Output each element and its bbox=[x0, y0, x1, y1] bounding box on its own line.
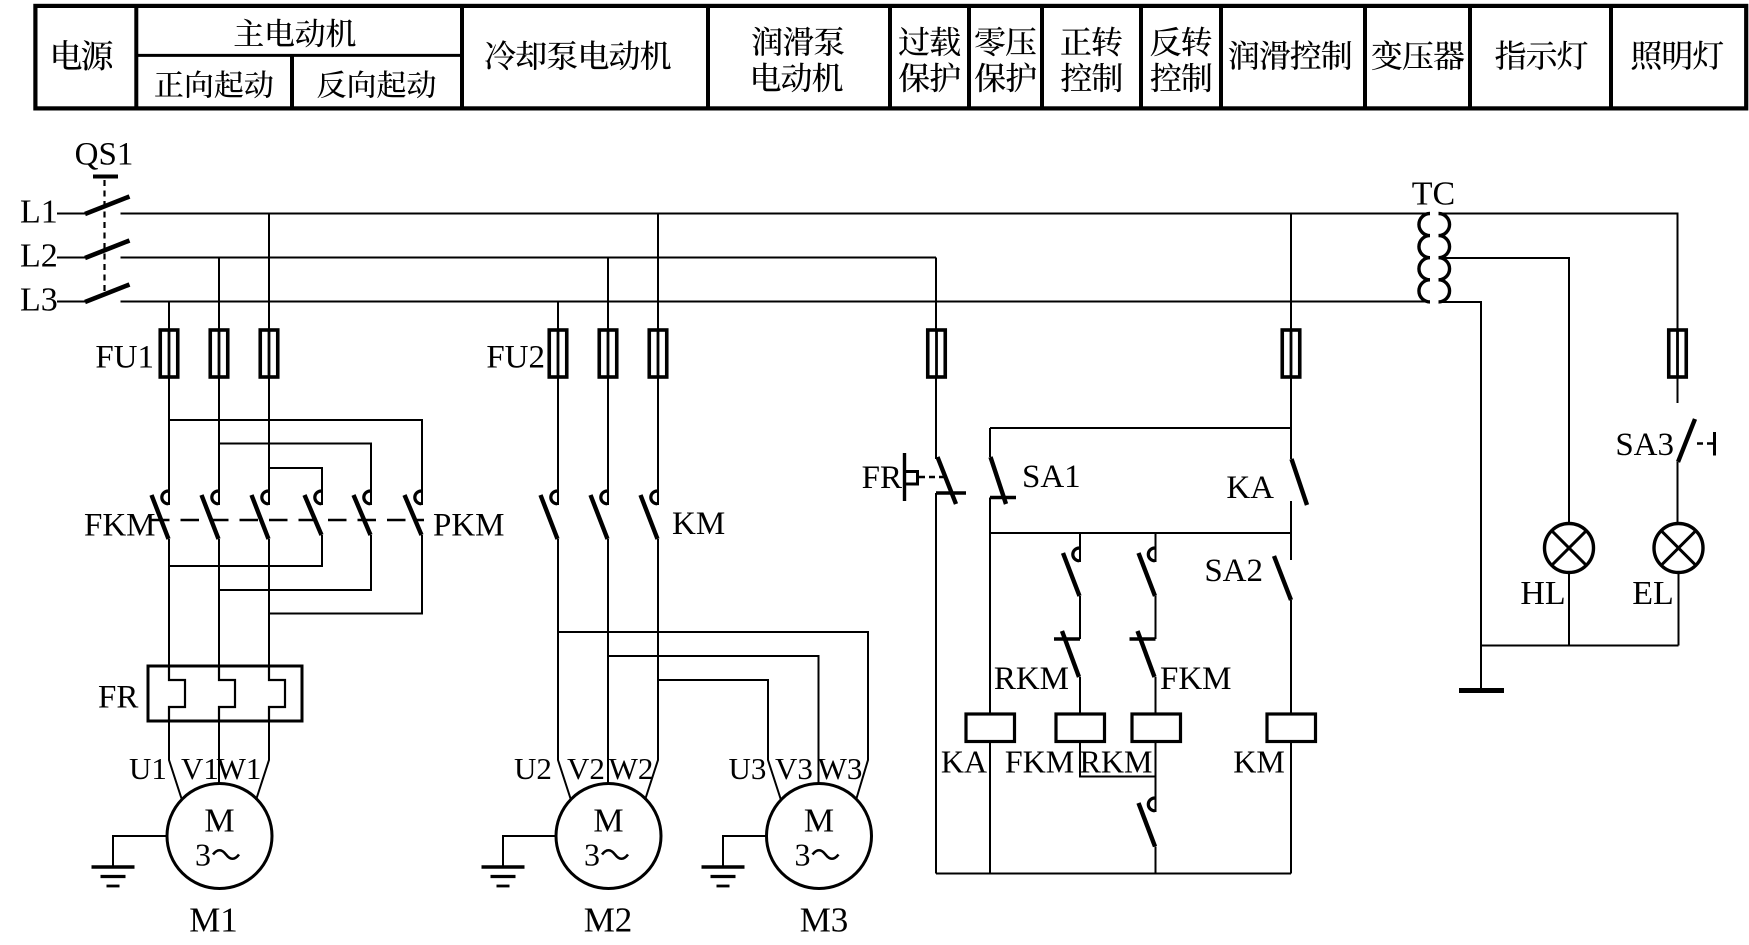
ground at M1 bbox=[92, 867, 135, 886]
wire KA coil to bottom rail bbox=[989, 742, 991, 874]
disconnect switch QS1 bbox=[85, 177, 130, 303]
svg-text:U3: U3 bbox=[729, 751, 767, 786]
wire FKM contact 2 down bbox=[218, 539, 220, 666]
thermal relay FR heater box bbox=[148, 666, 302, 721]
header label 变压器 bbox=[1372, 40, 1464, 70]
wire control bottom rail bbox=[936, 873, 1291, 875]
wire mid rail to SA2 bbox=[1290, 533, 1292, 560]
wire RKM coil down bbox=[1155, 742, 1157, 798]
switch SA2 bbox=[1274, 556, 1291, 600]
svg-text:FKM: FKM bbox=[1160, 661, 1232, 697]
contactor KM main contact 2 bbox=[591, 490, 609, 539]
header label 控制 line2b bbox=[1151, 63, 1212, 93]
switch SA1 bbox=[990, 457, 1016, 504]
wire to RKM interlock contact bbox=[1079, 596, 1081, 639]
fuse FU5 lighting bbox=[1669, 329, 1687, 378]
motor M2 bbox=[556, 784, 661, 889]
wire FKM contact 1 down bbox=[168, 539, 170, 666]
header label 润滑泵 line1 bbox=[752, 27, 844, 56]
wire FU1b to FKM contact 2 bbox=[218, 377, 220, 490]
fuse FU4 control right bbox=[1282, 329, 1300, 378]
ground at M2 bbox=[482, 867, 525, 886]
header label 指示灯 bbox=[1495, 40, 1587, 70]
contactor PKM main contact 6 bbox=[405, 490, 423, 535]
svg-text:FKM: FKM bbox=[84, 508, 156, 544]
header label 主电动机 bbox=[235, 19, 356, 48]
mechanical linkage dashed FKM-PKM bbox=[151, 519, 424, 521]
header label 冷却泵电动机 bbox=[485, 40, 670, 70]
wire tap to motor M3 V3 bbox=[608, 656, 819, 784]
relay coil KA bbox=[966, 714, 1015, 742]
wire lighting fuse to SA3 bbox=[1677, 377, 1679, 403]
wire KM contact 1 to motor M2 U2 bbox=[558, 539, 571, 800]
contactor FKM main contact 1 bbox=[152, 490, 170, 539]
wire M2 to ground bbox=[503, 836, 556, 867]
wire FKM coil down bbox=[1080, 742, 1156, 777]
wire control fuse to FR contact bbox=[935, 377, 937, 459]
wire SA2 to KM coil bbox=[1290, 600, 1292, 714]
svg-text:KM: KM bbox=[1233, 744, 1285, 780]
motor M3 bbox=[767, 784, 872, 889]
contactor PKM main contact 5 bbox=[354, 490, 372, 535]
svg-text:KM: KM bbox=[672, 506, 725, 542]
wire FU1c tap to PKM contact 4 bbox=[269, 468, 322, 490]
header label 润滑控制 bbox=[1229, 40, 1352, 70]
wire M1 to ground bbox=[113, 836, 167, 867]
svg-text:RKM: RKM bbox=[994, 661, 1069, 697]
wire SA1 to mid rail bbox=[989, 498, 991, 534]
contactor FKM interlock contact NC bbox=[1130, 631, 1156, 677]
wire L1 to FU1c bbox=[268, 214, 270, 331]
lighting lamp EL bbox=[1654, 524, 1703, 573]
wire L2 to FU1b bbox=[218, 258, 220, 331]
contactor coil FKM bbox=[1056, 714, 1105, 742]
svg-text:3: 3 bbox=[195, 837, 211, 873]
switch SA3 bbox=[1678, 419, 1715, 462]
motor M1 bbox=[167, 784, 272, 889]
thermal relay FR trip contact bbox=[905, 453, 967, 504]
svg-text:PKM: PKM bbox=[433, 508, 505, 544]
header label 反转 line1 bbox=[1151, 27, 1212, 57]
wire SA3 to lamp EL bbox=[1677, 462, 1679, 525]
wire FU1a tap to PKM contact 6 bbox=[169, 420, 422, 490]
wire tap to motor M3 U3 bbox=[658, 680, 781, 800]
wire secondary bottom to ground leg bbox=[1439, 302, 1482, 688]
wire EL to common bbox=[1678, 572, 1680, 646]
svg-text:KA: KA bbox=[1226, 470, 1274, 506]
wire KM aux contact to bottom rail bbox=[1155, 847, 1157, 874]
svg-text:QS1: QS1 bbox=[75, 137, 134, 173]
svg-text:W1: W1 bbox=[217, 751, 262, 786]
svg-text:EL: EL bbox=[1632, 575, 1674, 612]
fuse FU2b bbox=[599, 329, 617, 378]
wire KM coil to bottom rail bbox=[1290, 742, 1292, 874]
svg-text:FKM: FKM bbox=[1005, 744, 1074, 780]
wire mid rail to KA aux contact 2 bbox=[1155, 533, 1157, 547]
wire control box top rail bbox=[990, 427, 1291, 429]
wire M3 to ground bbox=[723, 836, 767, 867]
contactor FKM main contact 3 bbox=[252, 490, 270, 539]
svg-text:FR: FR bbox=[862, 460, 902, 496]
svg-text:TC: TC bbox=[1412, 176, 1455, 213]
fuse FU2c bbox=[649, 329, 667, 378]
svg-text:3: 3 bbox=[795, 837, 811, 873]
svg-text:M: M bbox=[804, 803, 834, 840]
wire L2 bus bbox=[57, 257, 936, 259]
svg-text:U1: U1 bbox=[129, 751, 167, 786]
ground at M3 bbox=[702, 867, 745, 886]
svg-text:W2: W2 bbox=[609, 751, 654, 786]
relay KA contact bbox=[1292, 459, 1308, 505]
indicator lamp HL bbox=[1545, 524, 1594, 573]
svg-text:M3: M3 bbox=[800, 901, 849, 940]
svg-text:FU2: FU2 bbox=[486, 340, 545, 376]
contactor coil RKM bbox=[1132, 714, 1181, 742]
chassis ground bar bbox=[1459, 688, 1504, 693]
svg-text:M2: M2 bbox=[584, 901, 633, 940]
svg-text:M1: M1 bbox=[189, 901, 238, 940]
wire tap to motor M3 W3 bbox=[558, 632, 868, 800]
contactor RKM interlock contact NC bbox=[1054, 631, 1080, 677]
header label 电动机 line2 bbox=[753, 63, 842, 93]
wire interlock to RKM coil bbox=[1155, 677, 1157, 714]
header label 照明灯 bbox=[1632, 41, 1724, 70]
wire L2 to FU2b bbox=[607, 258, 609, 331]
wire PKM contact 5 to phase 2 bbox=[219, 535, 371, 590]
fuse FU3 control left bbox=[928, 329, 946, 378]
transformer TC primary winding bbox=[1419, 214, 1430, 302]
header label 过载 line1 bbox=[899, 27, 960, 56]
wire KM contact 2 to motor M2 V2 bbox=[607, 539, 609, 784]
svg-text:V1: V1 bbox=[181, 751, 219, 786]
wire FU1c to FKM contact 3 bbox=[268, 377, 270, 490]
svg-text:SA2: SA2 bbox=[1204, 553, 1263, 589]
wire FU1a to FKM contact 1 bbox=[168, 377, 170, 490]
contactor KM main contact 3 bbox=[641, 490, 659, 539]
svg-text:W3: W3 bbox=[818, 751, 863, 786]
fuse FU1b bbox=[210, 329, 228, 378]
svg-text:M: M bbox=[204, 803, 234, 840]
svg-text:L1: L1 bbox=[20, 194, 58, 231]
transformer TC secondary winding bbox=[1439, 214, 1450, 302]
header label 保护 line2b bbox=[975, 62, 1036, 92]
wire interlock to FKM coil bbox=[1079, 677, 1081, 714]
wire top rail to SA1 bbox=[989, 428, 991, 457]
fuse FU1a bbox=[160, 329, 178, 378]
wire FR to motor M1 bbox=[169, 721, 269, 800]
wire to FKM interlock contact bbox=[1155, 596, 1157, 639]
contactor KM aux contact bbox=[1139, 797, 1156, 847]
header label 电源 bbox=[53, 40, 112, 70]
header table frame bbox=[35, 6, 1746, 109]
svg-text:RKM: RKM bbox=[1080, 744, 1153, 780]
svg-text:L3: L3 bbox=[20, 282, 58, 319]
wire secondary top to lighting branch bbox=[1439, 214, 1678, 331]
header label 正转 line1 bbox=[1061, 27, 1122, 57]
wire control box mid rail bbox=[990, 532, 1291, 534]
wire FU2a to KM contact 1 bbox=[557, 377, 559, 490]
svg-text:U2: U2 bbox=[514, 751, 552, 786]
fuse FU2a bbox=[549, 329, 567, 378]
contactor coil KM bbox=[1267, 714, 1316, 742]
wire KA contact to mid rail bbox=[1290, 501, 1292, 533]
wire L1 to control fuse right bbox=[1290, 214, 1292, 331]
wire FR contact to bottom rail bbox=[935, 493, 937, 874]
relay KA aux contact 2 bbox=[1139, 547, 1156, 596]
wire FU2b to KM contact 2 bbox=[607, 377, 609, 490]
wire L3 to FU1a bbox=[168, 302, 170, 331]
wire KM contact 3 to motor M2 W2 bbox=[645, 539, 658, 800]
wire mid rail to KA aux contact 1 bbox=[1079, 533, 1081, 547]
wire top rail to KA contact bbox=[1290, 428, 1292, 459]
header label 控制 line2 bbox=[1061, 63, 1122, 93]
svg-text:FR: FR bbox=[98, 680, 138, 716]
wire control fuse right down bbox=[1290, 377, 1292, 428]
svg-text:SA3: SA3 bbox=[1615, 427, 1674, 463]
svg-text:V2: V2 bbox=[567, 751, 605, 786]
wire L2 to control fuse bbox=[935, 258, 937, 331]
svg-text:L2: L2 bbox=[20, 238, 58, 275]
svg-text:FU1: FU1 bbox=[95, 340, 154, 376]
relay KA aux contact 1 bbox=[1063, 547, 1080, 596]
svg-text:KA: KA bbox=[941, 744, 987, 780]
contactor PKM main contact 4 bbox=[305, 490, 323, 535]
fuse FU1c bbox=[260, 329, 278, 378]
wire L1 to FU2c bbox=[657, 214, 659, 331]
wire L3 to FU2a bbox=[557, 302, 559, 331]
header label 零压 line1 bbox=[975, 27, 1036, 56]
contactor KM main contact 1 bbox=[541, 490, 559, 539]
svg-text:HL: HL bbox=[1520, 575, 1565, 612]
wire FU2c to KM contact 3 bbox=[657, 377, 659, 490]
wire FU1b tap to PKM contact 5 bbox=[219, 444, 371, 491]
header label 保护 line2 bbox=[899, 62, 960, 92]
contactor FKM main contact 2 bbox=[202, 490, 220, 539]
wire lamp common rail bbox=[1481, 645, 1679, 647]
svg-text:SA1: SA1 bbox=[1022, 459, 1081, 495]
wire L3 bus bbox=[57, 301, 1430, 303]
wire mid rail to KA coil bbox=[989, 533, 991, 714]
svg-text:3: 3 bbox=[584, 837, 600, 873]
header label 正向起动 bbox=[155, 70, 273, 98]
wire FKM contact 3 down bbox=[268, 539, 270, 666]
wire secondary tap to HL branch bbox=[1439, 258, 1570, 525]
wire HL to common bbox=[1568, 572, 1570, 646]
header label 反向起动 bbox=[318, 70, 436, 98]
wire PKM contact 4 to phase 1 bbox=[169, 535, 322, 566]
wire L1 bus bbox=[57, 213, 1430, 215]
svg-text:V3: V3 bbox=[775, 751, 813, 786]
svg-text:M: M bbox=[593, 803, 623, 840]
wire PKM contact 6 to phase 3 bbox=[269, 535, 422, 614]
